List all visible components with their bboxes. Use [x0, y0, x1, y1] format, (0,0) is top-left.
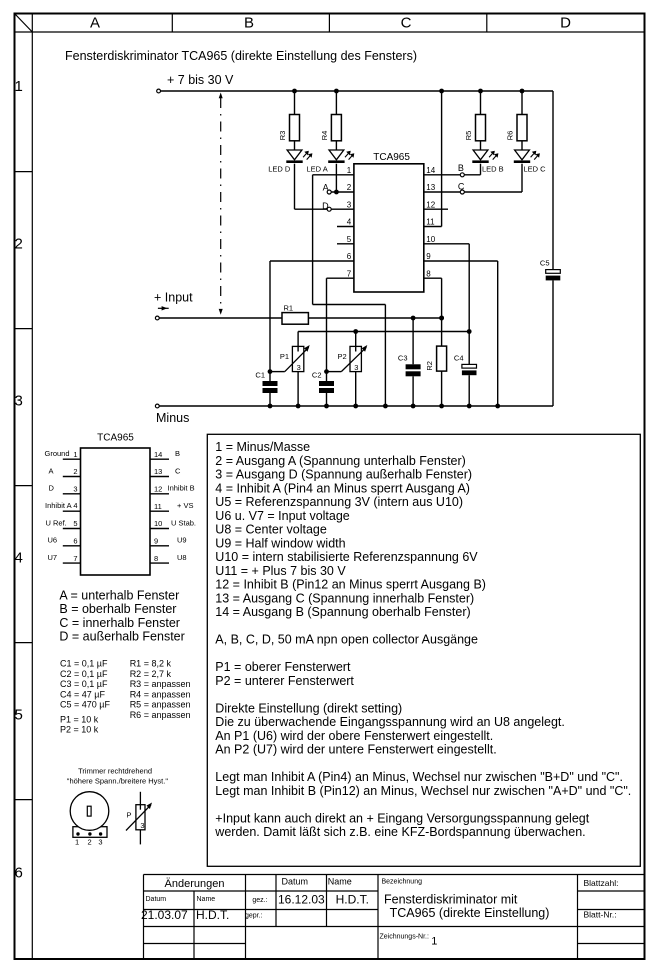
svg-text:C5: C5	[540, 258, 550, 267]
svg-text:P2 = unterer Fensterwert: P2 = unterer Fensterwert	[215, 674, 354, 688]
svg-text:5: 5	[15, 707, 23, 724]
svg-text:Zeichnungs-Nr.:: Zeichnungs-Nr.:	[380, 934, 429, 941]
svg-text:4 = Inhibit A (Pin4 an Minus s: 4 = Inhibit A (Pin4 an Minus sperrt Ausg…	[215, 481, 470, 495]
svg-text:A = unterhalb Fenster: A = unterhalb Fenster	[59, 588, 179, 602]
svg-text:D: D	[560, 15, 571, 32]
svg-text:U8 = Center voltage: U8 = Center voltage	[215, 523, 327, 537]
svg-text:R2 = 2,7 k: R2 = 2,7 k	[130, 669, 172, 679]
svg-text:21.03.07: 21.03.07	[141, 908, 188, 922]
svg-text:LED A: LED A	[307, 165, 328, 174]
svg-text:R1: R1	[284, 304, 294, 313]
svg-text:C2: C2	[312, 371, 322, 380]
svg-text:3: 3	[98, 837, 102, 846]
svg-text:1: 1	[73, 450, 77, 459]
svg-text:B = oberhalb Fenster: B = oberhalb Fenster	[59, 602, 176, 616]
svg-text:R2: R2	[425, 361, 434, 371]
svg-text:Direkte Einstellung (direkt se: Direkte Einstellung (direkt setting)	[215, 701, 402, 715]
svg-text:+Input kann auch direkt an + E: +Input kann auch direkt an + Eingang Ver…	[215, 811, 589, 825]
svg-text:TCA965: TCA965	[373, 152, 410, 163]
svg-text:A, B, C, D, 50 mA npn open col: A, B, C, D, 50 mA npn open collector Aus…	[215, 633, 478, 647]
svg-text:12: 12	[154, 485, 162, 494]
svg-text:LED D: LED D	[268, 165, 291, 174]
svg-text:8: 8	[154, 554, 158, 563]
svg-text:P1 = 10 k: P1 = 10 k	[60, 714, 99, 724]
svg-text:Fensterdiskriminator mit: Fensterdiskriminator mit	[384, 893, 518, 907]
svg-text:U9: U9	[177, 536, 187, 545]
svg-text:1: 1	[431, 936, 437, 948]
svg-text:1 = Minus/Masse: 1 = Minus/Masse	[215, 440, 310, 454]
svg-text:4: 4	[15, 550, 23, 567]
svg-text:U10 = intern stabilisierte Ref: U10 = intern stabilisierte Referenzspann…	[215, 550, 478, 564]
svg-text:Name: Name	[328, 877, 352, 887]
svg-text:5: 5	[73, 519, 77, 528]
svg-text:Die zu überwachende Eingangssp: Die zu überwachende Eingangsspannung wir…	[215, 715, 565, 729]
svg-text:5: 5	[347, 235, 352, 244]
svg-text:U Ref.: U Ref.	[46, 518, 67, 527]
svg-text:P1 = oberer Fensterwert: P1 = oberer Fensterwert	[215, 660, 351, 674]
svg-text:P: P	[126, 811, 131, 820]
svg-text:Inhibit B: Inhibit B	[168, 484, 195, 493]
svg-text:B: B	[244, 15, 254, 32]
svg-text:7: 7	[347, 269, 352, 278]
svg-text:C4 = 47 µF: C4 = 47 µF	[60, 689, 105, 699]
svg-text:2: 2	[73, 467, 77, 476]
svg-text:H.D.T.: H.D.T.	[336, 892, 369, 906]
svg-text:D = außerhalb Fenster: D = außerhalb Fenster	[59, 630, 184, 644]
svg-text:13 = Ausgang C (Spannung inner: 13 = Ausgang C (Spannung innerhalb Fenst…	[215, 591, 474, 605]
svg-text:gez.:: gez.:	[252, 897, 267, 904]
svg-text:1: 1	[75, 837, 79, 846]
svg-text:U Stab.: U Stab.	[171, 518, 196, 527]
svg-text:3: 3	[297, 363, 301, 372]
svg-text:Änderungen: Änderungen	[165, 878, 225, 890]
svg-text:D: D	[49, 484, 55, 493]
svg-text:2: 2	[347, 183, 352, 192]
svg-text:R5: R5	[464, 131, 473, 141]
svg-text:10: 10	[426, 235, 435, 244]
svg-text:Minus: Minus	[156, 411, 189, 425]
svg-text:8: 8	[426, 269, 431, 278]
svg-text:C = innerhalb Fenster: C = innerhalb Fenster	[59, 616, 180, 630]
svg-text:C1 = 0,1 µF: C1 = 0,1 µF	[60, 659, 108, 669]
svg-text:9: 9	[154, 537, 158, 546]
svg-text:3: 3	[354, 363, 358, 372]
svg-text:1: 1	[15, 78, 23, 95]
svg-text:13: 13	[426, 183, 435, 192]
svg-text:Legt man Inhibit A (Pin4) an M: Legt man Inhibit A (Pin4) an Minus, Wech…	[215, 770, 623, 784]
svg-text:"höhere Spann./breitere Hyst.": "höhere Spann./breitere Hyst."	[67, 777, 169, 786]
svg-text:11: 11	[426, 218, 435, 227]
svg-text:12: 12	[426, 200, 435, 209]
svg-text:LED B: LED B	[482, 165, 504, 174]
svg-text:Name: Name	[197, 896, 216, 903]
svg-text:C2 = 0,1 µF: C2 = 0,1 µF	[60, 669, 108, 679]
svg-text:R6: R6	[506, 131, 515, 141]
svg-text:R3 = anpassen: R3 = anpassen	[130, 679, 191, 689]
svg-text:Blattzahl:: Blattzahl:	[584, 878, 619, 888]
svg-text:C3: C3	[398, 353, 408, 362]
svg-text:Inhibit A 4: Inhibit A 4	[45, 501, 78, 510]
svg-text:2: 2	[88, 837, 92, 846]
svg-text:12 = Inhibit B (Pin12 an Minus: 12 = Inhibit B (Pin12 an Minus sperrt Au…	[215, 578, 486, 592]
svg-text:10: 10	[154, 519, 162, 528]
svg-text:+ Input: + Input	[154, 291, 193, 305]
svg-text:4: 4	[347, 218, 352, 227]
svg-text:TCA965 (direkte Einstellung): TCA965 (direkte Einstellung)	[390, 906, 550, 920]
svg-text:+ VS: + VS	[177, 501, 193, 510]
svg-text:An P2 (U7) wird der untere Fen: An P2 (U7) wird der untere Fensterwert e…	[215, 743, 496, 757]
svg-text:U5 = Referenzspannung 3V (inte: U5 = Referenzspannung 3V (intern aus U10…	[215, 495, 463, 509]
svg-text:H.D.T.: H.D.T.	[196, 908, 229, 922]
svg-text:TCA965: TCA965	[97, 433, 134, 444]
svg-text:C: C	[175, 466, 181, 475]
svg-text:14: 14	[154, 450, 162, 459]
svg-text:D: D	[322, 201, 329, 211]
svg-text:3: 3	[73, 485, 77, 494]
svg-text:Datum: Datum	[146, 896, 167, 903]
svg-text:14 = Ausgang B (Spannung oberh: 14 = Ausgang B (Spannung oberhalb Fenste…	[215, 605, 470, 619]
svg-text:LED C: LED C	[524, 165, 547, 174]
svg-text:B: B	[175, 449, 180, 458]
svg-text:R4: R4	[320, 131, 329, 141]
svg-text:2 = Ausgang A (Spannung unterh: 2 = Ausgang A (Spannung unterhalb Fenste…	[215, 454, 466, 468]
svg-text:R6 = anpassen: R6 = anpassen	[130, 710, 191, 720]
svg-text:Fensterdiskriminator TCA965 (d: Fensterdiskriminator TCA965 (direkte Ein…	[65, 49, 417, 63]
svg-text:Datum: Datum	[282, 877, 309, 887]
svg-text:C4: C4	[454, 353, 464, 362]
svg-text:6: 6	[73, 537, 77, 546]
svg-text:3: 3	[140, 821, 144, 830]
svg-text:U6: U6	[48, 536, 58, 545]
svg-text:gepr.:: gepr.:	[245, 913, 263, 920]
svg-text:Blatt-Nr.:: Blatt-Nr.:	[584, 909, 617, 919]
svg-text:11: 11	[154, 502, 162, 511]
svg-text:3 = Ausgang D (Spannung außerh: 3 = Ausgang D (Spannung außerhalb Fenste…	[215, 468, 472, 482]
svg-text:6: 6	[15, 865, 23, 882]
svg-text:U7: U7	[48, 553, 58, 562]
svg-text:R5 = anpassen: R5 = anpassen	[130, 700, 191, 710]
svg-text:R3: R3	[278, 131, 287, 141]
svg-text:Ground: Ground	[45, 449, 70, 458]
svg-text:R4 = anpassen: R4 = anpassen	[130, 689, 191, 699]
svg-text:A: A	[90, 15, 100, 32]
svg-text:Legt man Inhibit B (Pin12) an: Legt man Inhibit B (Pin12) an Minus, Wec…	[215, 784, 631, 798]
svg-text:An P1 (U6) wird der obere Fens: An P1 (U6) wird der obere Fensterwert ei…	[215, 729, 493, 743]
svg-text:16.12.03: 16.12.03	[278, 892, 325, 906]
svg-text:+ 7 bis 30 V: + 7 bis 30 V	[167, 73, 234, 87]
svg-text:P2 = 10 k: P2 = 10 k	[60, 724, 99, 734]
svg-text:werden. Damit läßt sich z.B. e: werden. Damit läßt sich z.B. eine KFZ-Bo…	[214, 825, 585, 839]
svg-text:C1: C1	[255, 371, 265, 380]
svg-text:U8: U8	[177, 553, 187, 562]
svg-text:A: A	[49, 466, 54, 475]
svg-text:U11 = + Plus 7 bis 30 V: U11 = + Plus 7 bis 30 V	[215, 564, 346, 578]
svg-text:9: 9	[426, 252, 431, 261]
svg-text:3: 3	[347, 200, 352, 209]
svg-text:C: C	[401, 15, 412, 32]
svg-text:14: 14	[426, 166, 435, 175]
svg-text:C: C	[458, 182, 465, 192]
svg-text:A: A	[323, 183, 329, 193]
svg-text:Bezeichnung: Bezeichnung	[382, 879, 423, 886]
svg-text:B: B	[458, 163, 464, 173]
svg-text:13: 13	[154, 467, 162, 476]
svg-text:1: 1	[347, 166, 352, 175]
svg-text:U6 u. V7 = Input voltage: U6 u. V7 = Input voltage	[215, 509, 350, 523]
svg-text:P2: P2	[338, 352, 347, 361]
svg-text:R1 = 8,2 k: R1 = 8,2 k	[130, 659, 172, 669]
svg-text:Trimmer rechtdrehend: Trimmer rechtdrehend	[78, 767, 152, 776]
svg-text:3: 3	[15, 393, 23, 410]
svg-text:U9 = Half window width: U9 = Half window width	[215, 536, 345, 550]
svg-text:P1: P1	[280, 352, 289, 361]
svg-text:C5 = 470 µF: C5 = 470 µF	[60, 700, 110, 710]
svg-text:7: 7	[73, 554, 77, 563]
svg-text:C3 = 0,1 µF: C3 = 0,1 µF	[60, 679, 108, 689]
svg-text:2: 2	[15, 236, 23, 253]
svg-text:6: 6	[347, 252, 352, 261]
